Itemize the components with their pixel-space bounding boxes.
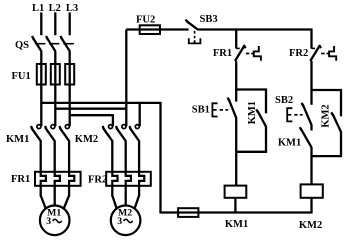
wire control top bus left [126, 28, 188, 30]
wire KM1 pole 1 to FR1 heater [40, 140, 42, 172]
wire L3 drop to QS [69, 12, 71, 35]
wire drop to KM2 pole 3 [139, 102, 141, 126]
thermal relay FR2 heater element [106, 172, 151, 186]
wire branch1 bottom junction [235, 151, 267, 153]
wire L1 drop to QS [40, 12, 42, 35]
svg-text:FU2: FU2 [136, 15, 155, 26]
contactor KM2 main contact pole 1 [103, 126, 104, 129]
motor M1 [40, 185, 42, 196]
contactor KM2 auxiliary NO contact (self-latch) [340, 89, 342, 116]
contactor KM1 NO contact (sequence interlock) [300, 127, 302, 130]
fuse FU3 (control return) [178, 208, 198, 217]
wire branch1 to coil [235, 152, 237, 186]
wire L3 FU1 to KM1 contact [69, 84, 71, 126]
fuse FU1 pole 1 [40, 64, 42, 85]
wire QS pole 3 to FU1 [69, 51, 71, 64]
wire branch2 top junction [311, 89, 343, 91]
wire KM1 pole 3 to FR1 heater [68, 140, 70, 172]
svg-text:KM1: KM1 [278, 138, 301, 149]
wire SB2 to KM1 contact [310, 125, 312, 131]
fuse FU1 pole 3 [69, 64, 71, 85]
svg-text:3: 3 [46, 216, 51, 227]
pushbutton SB2 (start, NO) [302, 103, 304, 106]
wire branch2 to coil [310, 156, 312, 185]
wire KM2 pole 1 to FR2 heater [111, 140, 113, 172]
wire QS pole 2 to FU1 [54, 51, 56, 64]
wire control return vertical [159, 102, 161, 214]
contactor KM2 main contact pole 3 [129, 126, 130, 129]
wire H3 from L3 to KM2 pole1 [70, 114, 113, 116]
svg-text:QS: QS [15, 40, 29, 51]
svg-text:SB3: SB3 [200, 14, 218, 25]
svg-text:FR2: FR2 [88, 175, 107, 186]
fuse FU1 pole 2 [54, 64, 56, 85]
pushbutton SB1 (start, NO) [228, 98, 230, 101]
fuse FU2 [140, 25, 160, 34]
wire SB1 top stub [235, 90, 237, 102]
motor M2 tilde [124, 219, 133, 222]
wire KM1 seq bottom [310, 147, 312, 157]
wire branch1 top junction [235, 88, 267, 90]
wire H2 from L2 to FU2 feed line [55, 108, 126, 110]
wire KM1 pole 2 to FR1 heater [54, 140, 56, 172]
wire QS pole 1 to FU1 [40, 51, 42, 64]
svg-text:L3: L3 [66, 3, 78, 14]
contactor KM2 main contact pole 2 [116, 126, 117, 129]
svg-text:FR1: FR1 [213, 48, 232, 59]
contactor KM1 main contact pole 1 [31, 126, 32, 129]
wire KM2 pole 3 to FR2 heater [138, 140, 140, 172]
QS linkage dashed bar [35, 43, 46, 45]
svg-text:FR2: FR2 [289, 48, 308, 59]
wire KM1 coil to bottom bus [234, 198, 236, 214]
thermal relay FR1 NC contact [235, 29, 237, 49]
wire control top bus right [198, 28, 313, 30]
wire drop to KM2 pole 1 [112, 114, 114, 126]
wire SB1 bottom [235, 118, 237, 153]
wire KM2 coil to bottom bus [310, 198, 312, 214]
wire SB2 top stub [310, 90, 312, 105]
svg-text:KM1: KM1 [225, 219, 248, 230]
switch QS pole 3 blade [61, 36, 62, 39]
contactor KM1 main contact pole 3 [59, 126, 60, 129]
contactor KM1 main contact pole 2 [45, 126, 46, 129]
svg-text:FR1: FR1 [11, 174, 30, 185]
svg-text:KM1: KM1 [247, 101, 258, 124]
thermal relay FR1 heater element [35, 172, 81, 186]
pushbutton SB3 (stop, NC) [186, 20, 189, 23]
wire KM2 pole 2 to FR2 heater [125, 140, 127, 172]
wire L1 FU1 to KM1 contact [40, 84, 42, 126]
wire L2 drop to QS [54, 12, 56, 35]
wire branch2 bottom junction [311, 155, 343, 157]
wire L2 FU1 to KM1 contact [54, 84, 56, 126]
svg-text:KM2: KM2 [320, 104, 331, 127]
wire FU2 feed vertical / KM2 pole 2 drop [125, 30, 127, 127]
motor M2 [111, 185, 113, 196]
switch QS pole 2 blade [46, 36, 47, 39]
thermal relay FR2 NC contact [310, 29, 312, 49]
wire control bottom bus [161, 211, 313, 213]
svg-text:3: 3 [117, 216, 122, 227]
contactor KM1 auxiliary NO contact (self-latch) [265, 89, 267, 114]
svg-text:FU1: FU1 [12, 71, 31, 82]
svg-text:KM2: KM2 [75, 134, 98, 145]
wire H1 from L1 to control return corner [41, 102, 160, 104]
coil KM1 [225, 186, 247, 198]
svg-text:KM2: KM2 [299, 220, 322, 231]
svg-text:SB2: SB2 [275, 95, 293, 106]
motor M1 tilde [53, 219, 62, 222]
svg-text:SB1: SB1 [192, 104, 210, 115]
coil KM2 [301, 184, 323, 197]
switch QS pole 1 blade [32, 36, 33, 39]
svg-text:KM1: KM1 [6, 134, 29, 145]
